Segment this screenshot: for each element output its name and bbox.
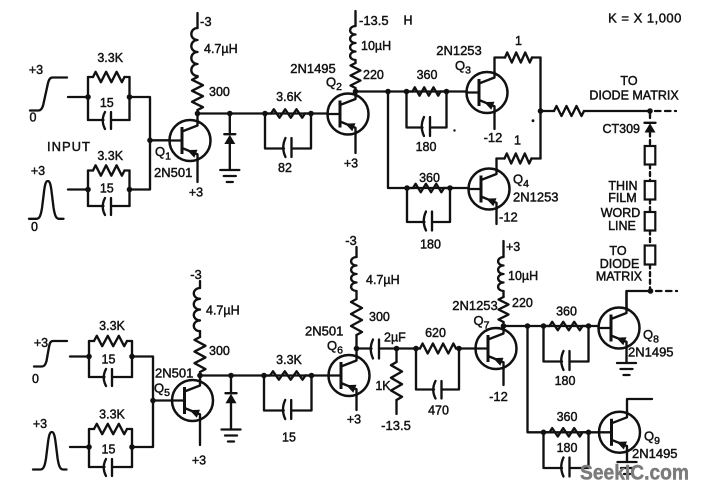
node bbox=[586, 323, 592, 329]
svg-text:+3: +3 bbox=[33, 417, 47, 431]
transistor Q6 bbox=[305, 324, 370, 397]
wire bbox=[128, 171, 130, 207]
svg-text:15: 15 bbox=[102, 353, 116, 367]
svg-text:-12: -12 bbox=[489, 389, 508, 404]
capacitor 180 bbox=[407, 92, 447, 155]
svg-text:10µH: 10µH bbox=[508, 269, 538, 283]
label TO DIODE MATRIX (top) bbox=[589, 74, 679, 103]
resistor 360 bbox=[407, 171, 450, 192]
svg-text:220: 220 bbox=[363, 68, 384, 82]
wire bbox=[68, 188, 88, 190]
svg-text:1: 1 bbox=[515, 34, 522, 48]
svg-text:TO: TO bbox=[609, 244, 626, 258]
svg-text:3.3K: 3.3K bbox=[99, 408, 125, 422]
resistor 300 (Q1 collector) bbox=[192, 77, 230, 114]
node B bbox=[538, 108, 544, 114]
capacitor 15 bbox=[89, 443, 132, 477]
resistor 3.3K bbox=[89, 319, 132, 346]
svg-text:360: 360 bbox=[419, 171, 440, 185]
svg-text:15: 15 bbox=[102, 443, 116, 457]
inductor 10uH bbox=[350, 26, 391, 60]
node bbox=[309, 373, 315, 379]
wire dashed bbox=[656, 290, 677, 292]
node bbox=[444, 89, 450, 95]
resistor 220 (Q2 collector) bbox=[351, 60, 384, 92]
svg-text:2µF: 2µF bbox=[384, 331, 406, 345]
resistor 3.3K bbox=[89, 408, 132, 435]
svg-text:82: 82 bbox=[278, 161, 292, 175]
input step waveform top bbox=[29, 63, 67, 125]
svg-text:360: 360 bbox=[417, 68, 438, 82]
node bbox=[86, 354, 92, 360]
inductor 4.7uH bbox=[191, 28, 237, 77]
wire bbox=[131, 429, 133, 467]
wire bbox=[502, 369, 504, 385]
node bbox=[456, 346, 462, 352]
node bbox=[129, 354, 135, 360]
node bbox=[413, 346, 419, 352]
node bbox=[195, 111, 201, 117]
svg-text:4.7µH: 4.7µH bbox=[206, 304, 240, 318]
ground bbox=[222, 430, 241, 442]
transistor Q7 bbox=[452, 298, 516, 369]
svg-text:3.3K: 3.3K bbox=[99, 319, 125, 333]
resistor 360 bbox=[407, 68, 447, 96]
wire bbox=[196, 114, 198, 121]
wire bbox=[354, 92, 356, 94]
resistor 360 bbox=[544, 305, 589, 331]
svg-text:2N1495: 2N1495 bbox=[632, 446, 678, 461]
svg-text:180: 180 bbox=[420, 238, 441, 252]
resistor 1K bbox=[375, 349, 402, 415]
resistor 620 bbox=[416, 326, 459, 354]
svg-text:0: 0 bbox=[31, 220, 38, 234]
resistor 3.6K bbox=[265, 90, 311, 118]
svg-text:2N501: 2N501 bbox=[305, 324, 343, 339]
svg-text:300: 300 bbox=[209, 85, 230, 99]
svg-text:-13.5: -13.5 bbox=[381, 418, 411, 433]
resistor 300 (Q6 collector) bbox=[351, 299, 390, 349]
speck bbox=[532, 119, 535, 122]
svg-text:3.6K: 3.6K bbox=[276, 90, 302, 104]
svg-text:-3: -3 bbox=[345, 233, 357, 248]
wire bbox=[539, 58, 541, 159]
svg-text:-3: -3 bbox=[200, 14, 212, 29]
wire bbox=[196, 161, 198, 182]
capacitor 180 bbox=[407, 188, 450, 252]
node bbox=[85, 94, 91, 100]
thin film word line resistors bbox=[645, 133, 656, 291]
transistor Q4 bbox=[469, 168, 559, 210]
node bbox=[127, 187, 133, 193]
wire bbox=[153, 399, 172, 401]
diode D1 bbox=[224, 114, 235, 171]
capacitor 2uF bbox=[357, 331, 407, 359]
wire bbox=[354, 135, 356, 154]
node C bbox=[648, 288, 654, 294]
node bbox=[85, 187, 91, 193]
svg-text:15: 15 bbox=[100, 182, 114, 196]
input step waveform bottom bbox=[34, 336, 67, 367]
wire bbox=[626, 453, 628, 462]
node bbox=[353, 89, 359, 95]
svg-text:+3: +3 bbox=[189, 186, 203, 200]
svg-text:2N1253: 2N1253 bbox=[513, 190, 559, 205]
wire bbox=[131, 341, 133, 377]
svg-text:+3: +3 bbox=[344, 157, 358, 171]
svg-text:H: H bbox=[403, 14, 412, 28]
svg-text:WORD: WORD bbox=[601, 206, 641, 220]
svg-text:3.3K: 3.3K bbox=[97, 51, 123, 65]
svg-text:3.3K: 3.3K bbox=[97, 149, 123, 163]
node bbox=[541, 430, 547, 436]
inductor 10uH (Q7) bbox=[498, 257, 538, 297]
transistor Q1 bbox=[154, 120, 211, 180]
node bbox=[501, 323, 507, 329]
node bbox=[308, 111, 314, 117]
svg-text:10µH: 10µH bbox=[361, 39, 391, 53]
resistor (output to diode matrix) bbox=[541, 106, 651, 116]
wire bbox=[88, 341, 90, 377]
node bbox=[354, 346, 360, 352]
transistor Q8 bbox=[599, 307, 674, 359]
svg-text:220: 220 bbox=[512, 296, 533, 310]
node bbox=[404, 185, 410, 191]
resistor 1 (Q3 collector) bbox=[495, 34, 541, 72]
node A bbox=[147, 138, 153, 144]
capacitor 180 bbox=[544, 432, 589, 476]
resistor 300 (Q5 collector) bbox=[195, 337, 230, 376]
diode CT309 bbox=[602, 114, 655, 137]
capacitor 15 bbox=[89, 353, 132, 387]
wire bbox=[198, 112, 328, 114]
svg-text:+3: +3 bbox=[192, 454, 206, 468]
svg-text:CT309: CT309 bbox=[602, 122, 640, 136]
node bbox=[227, 111, 233, 117]
ground bbox=[220, 170, 239, 182]
capacitor 15 bbox=[88, 96, 130, 129]
diode D2 bbox=[226, 376, 237, 430]
node bbox=[197, 373, 203, 379]
power -13.5 bbox=[356, 11, 413, 28]
wire bbox=[356, 90, 467, 92]
svg-text:1K: 1K bbox=[375, 379, 391, 393]
wire bbox=[199, 421, 201, 445]
speck bbox=[453, 129, 455, 131]
svg-text:+3: +3 bbox=[34, 336, 48, 350]
svg-text:0: 0 bbox=[30, 111, 37, 125]
svg-text:MATRIX: MATRIX bbox=[596, 270, 643, 284]
wire bbox=[150, 139, 170, 141]
svg-text:360: 360 bbox=[556, 305, 577, 319]
label -12 (Q3) bbox=[484, 113, 503, 145]
wire bbox=[388, 92, 469, 189]
svg-text:15: 15 bbox=[100, 96, 114, 110]
node bbox=[541, 323, 547, 329]
label TO DIODE MATRIX (bottom) bbox=[596, 244, 643, 284]
svg-text:-12: -12 bbox=[484, 130, 503, 145]
wire bbox=[88, 429, 90, 467]
wire bbox=[128, 77, 130, 120]
wire bbox=[459, 347, 476, 349]
transistor Q9 bbox=[599, 412, 678, 462]
wire bbox=[502, 326, 504, 329]
node bbox=[394, 346, 400, 352]
capacitor 180 bbox=[544, 326, 589, 388]
svg-text:0: 0 bbox=[32, 372, 39, 386]
node bbox=[525, 323, 531, 329]
input pulse waveform bottom bbox=[33, 417, 67, 470]
node bbox=[129, 444, 135, 450]
label -12 (Q4) bbox=[497, 210, 518, 225]
node bbox=[647, 108, 653, 114]
wire bbox=[70, 355, 89, 357]
svg-text:2N501: 2N501 bbox=[154, 165, 192, 180]
wire bbox=[199, 376, 201, 381]
node bbox=[404, 89, 410, 95]
node bbox=[127, 94, 133, 100]
node bbox=[447, 185, 453, 191]
capacitor 15 bbox=[264, 376, 312, 445]
label THIN FILM WORD LINE bbox=[601, 179, 641, 233]
svg-text:+3: +3 bbox=[347, 413, 361, 427]
wire bbox=[68, 96, 88, 98]
svg-text:2N501: 2N501 bbox=[155, 366, 193, 381]
transistor Q2 bbox=[290, 61, 368, 135]
wire bbox=[200, 374, 329, 376]
power -3 bbox=[198, 13, 212, 29]
wire bbox=[495, 159, 497, 169]
svg-text:470: 470 bbox=[428, 404, 449, 418]
node bbox=[262, 111, 268, 117]
wire bbox=[355, 349, 357, 357]
wire bbox=[87, 171, 89, 207]
svg-text:180: 180 bbox=[557, 441, 578, 455]
node bbox=[86, 444, 92, 450]
wire bbox=[397, 347, 417, 349]
svg-text:+3: +3 bbox=[31, 164, 45, 178]
node bbox=[228, 373, 234, 379]
svg-text:2N1495: 2N1495 bbox=[628, 345, 674, 360]
power -3 (Q5) bbox=[190, 267, 202, 288]
wire bbox=[132, 357, 153, 448]
svg-text:15: 15 bbox=[282, 431, 296, 445]
node D bbox=[150, 398, 156, 404]
node bbox=[385, 89, 391, 95]
svg-text:360: 360 bbox=[557, 410, 578, 424]
wire bbox=[70, 446, 89, 448]
wire dashed bbox=[655, 110, 676, 112]
wire bbox=[625, 291, 627, 308]
power -3 (Q6) bbox=[345, 233, 357, 257]
resistor 3.3K bbox=[88, 149, 130, 176]
node bbox=[586, 430, 592, 436]
wire bbox=[627, 291, 651, 308]
wire bbox=[528, 326, 599, 432]
svg-text:+3: +3 bbox=[506, 240, 520, 254]
inductor 4.7uH (Q5) bbox=[194, 288, 240, 337]
node bbox=[261, 373, 267, 379]
transistor Q3 bbox=[436, 43, 507, 113]
capacitor 470 bbox=[416, 349, 459, 418]
transistor Q5 bbox=[154, 366, 213, 422]
wire bbox=[625, 349, 627, 364]
svg-text:DIODE MATRIX: DIODE MATRIX bbox=[589, 89, 679, 103]
svg-text:1: 1 bbox=[514, 134, 521, 148]
svg-text:4.7µH: 4.7µH bbox=[204, 42, 238, 56]
svg-text:4.7µH: 4.7µH bbox=[366, 273, 400, 287]
svg-text:-3: -3 bbox=[190, 267, 202, 282]
svg-text:+3: +3 bbox=[29, 63, 43, 77]
resistor 1 (Q4 collector) bbox=[497, 134, 541, 164]
svg-text:FILM: FILM bbox=[608, 191, 636, 205]
wire bbox=[87, 77, 89, 120]
svg-text:-12: -12 bbox=[499, 210, 518, 225]
svg-text:LINE: LINE bbox=[608, 219, 636, 233]
svg-text:SeekIC.com: SeekIC.com bbox=[580, 461, 689, 485]
svg-text:180: 180 bbox=[416, 140, 437, 154]
svg-text:TO: TO bbox=[620, 74, 637, 88]
ground bbox=[617, 363, 636, 375]
svg-text:3.3K: 3.3K bbox=[276, 353, 302, 367]
svg-text:2N1253: 2N1253 bbox=[436, 43, 482, 58]
capacitor 82 bbox=[265, 114, 311, 176]
resistor 360 bbox=[544, 410, 589, 437]
svg-text:-13.5: -13.5 bbox=[359, 13, 389, 28]
svg-text:300: 300 bbox=[369, 310, 390, 324]
wire bbox=[627, 399, 652, 413]
wire bbox=[355, 396, 357, 410]
power +3 (Q7) bbox=[504, 240, 521, 257]
resistor 3.3K bbox=[88, 51, 130, 82]
svg-text:620: 620 bbox=[425, 326, 446, 340]
input pulse waveform top bbox=[29, 164, 64, 234]
svg-text:INPUT: INPUT bbox=[47, 139, 91, 154]
resistor 3.3K bbox=[264, 353, 312, 380]
svg-text:2N1253: 2N1253 bbox=[452, 298, 498, 313]
resistor 220 (Q7) bbox=[499, 296, 533, 326]
wire bbox=[504, 325, 599, 327]
wire bbox=[130, 97, 151, 190]
capacitor 15 bbox=[88, 182, 130, 216]
ground bbox=[618, 462, 637, 474]
svg-text:K = X 1,000: K = X 1,000 bbox=[608, 11, 682, 26]
svg-text:300: 300 bbox=[209, 344, 230, 358]
svg-text:180: 180 bbox=[555, 374, 576, 388]
inductor 4.7uH (Q6) bbox=[351, 257, 400, 299]
